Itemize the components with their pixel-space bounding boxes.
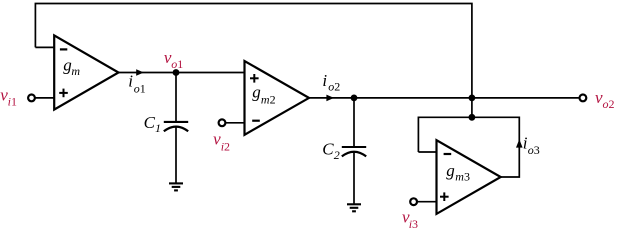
- wire U2 output to vo2: [309, 97, 579, 99]
- arrowhead io3: [516, 139, 523, 147]
- wire U3 feedback loop: [418, 117, 519, 177]
- wire C2 to ground: [353, 152, 355, 204]
- svg-text:C: C: [144, 113, 156, 132]
- wire vi1 to U1 plus input: [35, 97, 54, 99]
- arrowhead io2: [326, 95, 334, 102]
- node vo1: [173, 69, 180, 76]
- wire vi3 to U3 plus input: [417, 201, 437, 203]
- wire node to U3 feedback loop: [471, 98, 473, 117]
- wire vi2 to U2 minus input: [225, 122, 244, 124]
- U3 minus sign: [444, 153, 452, 155]
- svg-text:C: C: [322, 140, 334, 159]
- terminal vi3: [410, 198, 417, 205]
- U1 plus sign: [59, 92, 68, 94]
- svg-text:o2: o2: [603, 97, 615, 111]
- capacitor C2: [342, 146, 366, 148]
- U3 plus sign: [440, 196, 449, 198]
- wire loop to U3 minus input: [418, 151, 436, 153]
- wire C1 to ground: [175, 127, 177, 183]
- op-amp U3: [437, 140, 501, 214]
- arrowhead io1: [136, 69, 144, 76]
- svg-text:i: i: [322, 71, 327, 90]
- terminal vi2: [219, 119, 226, 126]
- svg-text:o3: o3: [528, 143, 540, 157]
- wire node vo1 down to C1: [175, 73, 177, 122]
- op-amp U2: [245, 61, 310, 135]
- svg-text:o1: o1: [171, 57, 183, 71]
- wire U1 output to U2 plus input: [119, 72, 245, 74]
- svg-text:m3: m3: [455, 170, 470, 184]
- U2 plus sign: [250, 77, 259, 79]
- terminal vo2: [580, 95, 587, 102]
- node feedback loop: [469, 114, 476, 121]
- wire node down to C2: [353, 98, 355, 146]
- wire feedback top from node to op-amp U1 inverting input: [35, 4, 472, 98]
- node feedback top: [469, 95, 476, 102]
- svg-text:i: i: [128, 71, 133, 90]
- capacitor C1: [164, 121, 188, 123]
- U1 minus sign: [60, 48, 67, 50]
- svg-text:o2: o2: [328, 79, 340, 93]
- U2 minus sign: [252, 120, 260, 122]
- terminal vi1: [28, 95, 35, 102]
- svg-text:m: m: [71, 64, 80, 78]
- svg-text:m2: m2: [261, 92, 276, 106]
- node io2/C2: [351, 95, 358, 102]
- ground: [347, 203, 361, 205]
- svg-text:i1: i1: [8, 95, 17, 109]
- svg-text:g: g: [446, 161, 455, 180]
- svg-text:2: 2: [334, 148, 340, 162]
- svg-text:1: 1: [155, 121, 161, 135]
- svg-text:i2: i2: [221, 139, 230, 153]
- svg-text:o1: o1: [134, 82, 146, 96]
- ground: [169, 182, 183, 184]
- op-amp U1: [54, 35, 118, 109]
- svg-text:i3: i3: [409, 217, 418, 231]
- wire U1 minus input stub: [35, 46, 54, 48]
- svg-text:g: g: [252, 82, 260, 101]
